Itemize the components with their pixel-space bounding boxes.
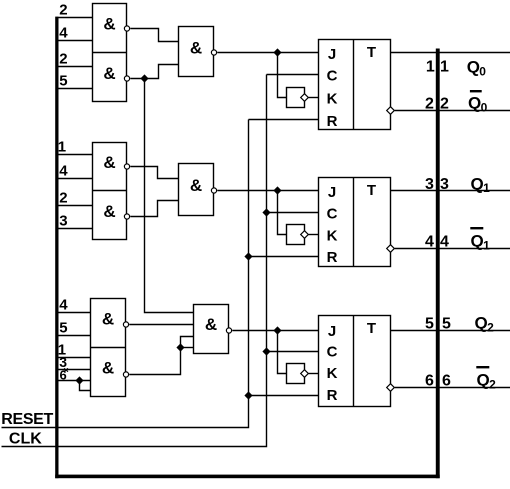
wire: node F branch to G6 lowest input	[80, 381, 91, 391]
svg-text:Q: Q	[467, 58, 480, 77]
svg-text:Q: Q	[468, 94, 481, 113]
net label Q0-bar	[468, 90, 488, 114]
AND gate G4 symbol &	[103, 202, 115, 221]
svg-text:0: 0	[479, 64, 486, 78]
wire: FF3 Q2-bar output	[395, 387, 510, 389]
pin number 4 left of bus	[425, 234, 434, 251]
svg-text:2: 2	[440, 96, 449, 113]
svg-text:&: &	[102, 359, 114, 378]
FF2 inverted output bubble	[387, 245, 395, 253]
junction node A (G2 output branch)	[140, 74, 148, 82]
svg-text:R: R	[327, 113, 338, 130]
net label Q1	[471, 174, 491, 195]
svg-text:Q: Q	[475, 314, 488, 333]
svg-text:K: K	[327, 228, 338, 245]
bus: bottom thick horizontal rail	[55, 475, 440, 479]
wire: FF1 Q0 output	[391, 52, 510, 54]
junction node D (CLK rail / FF2 C)	[262, 208, 270, 216]
JK flip-flop FF1	[319, 40, 391, 130]
svg-text:4: 4	[59, 163, 68, 180]
wire: G1 output to N1 upper input	[130, 29, 178, 42]
wire: N1 output to FF1 J input	[217, 52, 318, 54]
wire: CLK vertical rail	[2, 75, 267, 447]
junction node K (RESET rail / FF3 R)	[244, 391, 252, 399]
wire: G6 input taps from left bus	[59, 358, 91, 381]
svg-text:T: T	[367, 44, 376, 61]
svg-text:T: T	[367, 320, 376, 337]
N3 output inversion bubble	[226, 328, 231, 333]
pin label 1 (G6 input)	[58, 342, 66, 359]
wire: node B down to inverter V1 input	[278, 53, 287, 98]
G6 output inversion bubble	[123, 372, 128, 377]
svg-text:K: K	[327, 365, 338, 382]
inverter V3 (K input of FF3)	[287, 364, 309, 384]
svg-text:1: 1	[426, 59, 435, 76]
AND gate pair G3/G4 box (middle group)	[93, 143, 127, 240]
svg-text:2: 2	[425, 96, 434, 113]
svg-text:&: &	[103, 202, 115, 221]
wire: FF2 C input	[267, 212, 319, 214]
wire: FF2 R input	[249, 256, 319, 258]
AND gate G2 symbol &	[103, 64, 115, 83]
G4 output inversion bubble	[124, 214, 129, 219]
svg-text:2: 2	[59, 51, 67, 68]
wire: G2 output to N1 lower input	[130, 65, 178, 79]
svg-text:5: 5	[59, 320, 67, 337]
net label CLK	[9, 431, 42, 448]
svg-text:3: 3	[425, 176, 434, 193]
junction node B on FF1 J line	[273, 48, 281, 56]
pin number 5 left of bus	[425, 316, 434, 333]
pin number 3 right of bus	[440, 176, 449, 193]
G2 output inversion bubble	[124, 76, 129, 81]
AND gate pair G5/G6 box (bottom group)	[91, 299, 126, 397]
wire: node G to N3 fourth input	[181, 347, 194, 349]
wire: FF3 C input	[267, 351, 319, 353]
pin label 4 (G5 input)	[59, 297, 68, 314]
svg-text:4: 4	[59, 25, 68, 42]
wire: G4 output to N2 lower input	[130, 201, 178, 217]
svg-text:3: 3	[440, 176, 449, 193]
G3 output inversion bubble	[124, 164, 129, 169]
wire: RESET vertical rail	[2, 120, 249, 428]
svg-text:4: 4	[425, 234, 434, 251]
svg-text:6: 6	[442, 373, 451, 390]
wire: G1 input taps from left bus	[59, 18, 93, 41]
svg-text:2: 2	[59, 2, 67, 19]
wire: G5 input taps from left bus	[59, 313, 91, 336]
pin label 4 (G1 input)	[59, 25, 68, 42]
svg-text:RESET: RESET	[1, 411, 53, 428]
bus: left thick vertical rail	[55, 17, 58, 479]
AND gate G1 symbol &	[103, 14, 115, 33]
svg-text:4: 4	[440, 234, 449, 251]
pin label 6 (G6 input)	[60, 367, 67, 382]
svg-text:5: 5	[442, 316, 451, 333]
net label RESET	[1, 411, 53, 428]
JK flip-flop FF3	[319, 316, 391, 407]
wire: V1 output to FF1 K	[309, 97, 319, 99]
svg-text:3: 3	[59, 213, 67, 230]
svg-text:T: T	[367, 182, 376, 199]
svg-text:&: &	[190, 38, 202, 57]
svg-text:Q: Q	[471, 174, 484, 193]
svg-text:&: &	[190, 176, 202, 195]
AND gate pair G1/G2 box (top group)	[93, 4, 127, 102]
wire: FF3 Q2 output	[391, 330, 510, 332]
svg-text:R: R	[327, 249, 338, 266]
wire: FF2 Q1 output	[391, 190, 510, 192]
svg-text:C: C	[327, 206, 338, 223]
pin number 3 left of bus	[425, 176, 434, 193]
N1 output inversion bubble	[211, 50, 216, 55]
JK flip-flop FF2	[319, 178, 391, 267]
junction node G on G6 output riser	[176, 343, 184, 351]
svg-text:1: 1	[58, 139, 66, 156]
AND gate G3 symbol &	[103, 153, 115, 172]
svg-text:J: J	[328, 184, 336, 201]
inverter V2 (K input of FF2)	[287, 225, 309, 245]
pin number 2 right of bus	[440, 96, 449, 113]
pin number 4 right of bus	[440, 234, 449, 251]
svg-text:5: 5	[59, 73, 67, 90]
wire: G3 input taps from left bus	[59, 155, 93, 179]
wire: G4 input taps from left bus	[59, 206, 93, 229]
net label Q0	[467, 58, 487, 79]
net label Q1-bar	[470, 227, 490, 252]
FF3 inverted output bubble	[387, 384, 395, 392]
wire: G5 output to N3 second input	[129, 324, 193, 326]
svg-text:1: 1	[483, 238, 490, 252]
wire: FF2 Q1-bar output	[395, 248, 510, 250]
wire: FF3 R input	[249, 395, 319, 397]
wire: FF1 Q0-bar output	[395, 110, 510, 112]
svg-text:C: C	[327, 68, 338, 85]
pin label 4 (G3 input)	[59, 163, 68, 180]
wire: G2 input taps from left bus	[59, 67, 93, 89]
pin number 6 left of bus	[425, 373, 434, 390]
net label Q2-bar	[476, 366, 496, 391]
svg-text:&: &	[103, 64, 115, 83]
svg-text:6: 6	[425, 373, 434, 390]
pin label 2 (G2 input)	[59, 51, 67, 68]
svg-text:1: 1	[483, 181, 490, 195]
svg-text:2: 2	[489, 377, 496, 391]
svg-text:J: J	[328, 46, 336, 63]
pin label 3 (G6 input)	[59, 354, 67, 370]
pin number 6 right of bus	[442, 373, 451, 390]
svg-text:0: 0	[481, 100, 488, 114]
svg-text:5: 5	[425, 316, 434, 333]
AND gate G5 symbol &	[102, 310, 114, 329]
svg-text:2: 2	[59, 190, 67, 207]
svg-text:&: &	[102, 310, 114, 329]
wire: V2 output to FF2 K	[309, 234, 319, 236]
pin number 1 right of bus	[440, 59, 449, 76]
bus: right thick vertical rail	[436, 49, 440, 479]
svg-text:&: &	[103, 153, 115, 172]
junction node F on pin-6 tap	[75, 376, 83, 384]
svg-text:&: &	[103, 14, 115, 33]
wire: G6 output up to N3 third input	[129, 337, 193, 375]
pin label 1 (G3 input)	[58, 139, 66, 156]
G1 output inversion bubble	[124, 26, 129, 31]
wire: G3 output to N2 upper input	[130, 167, 178, 179]
wire: N3 output to FF3 J input	[232, 330, 318, 332]
pin number 2 left of bus	[425, 96, 434, 113]
pin label 5 (G2 input)	[59, 73, 67, 90]
mark x on G6 input line	[64, 368, 68, 371]
svg-text:Q: Q	[471, 232, 484, 251]
pin number 1 left of bus	[426, 59, 435, 76]
pin label 2 (G4 input)	[59, 190, 67, 207]
svg-text:4: 4	[59, 297, 68, 314]
pin number 5 right of bus	[442, 316, 451, 333]
FF1 inverted output bubble	[387, 107, 395, 115]
wire: FF1 C input to CLK rail	[267, 74, 319, 76]
svg-text:J: J	[328, 323, 336, 340]
wire: N2 output to FF2 J input	[217, 190, 318, 192]
svg-text:CLK: CLK	[9, 431, 42, 448]
pin label 3 (G4 input)	[59, 213, 67, 230]
N2 output inversion bubble	[211, 188, 216, 193]
inverter V1 (K input of FF1)	[287, 88, 309, 108]
NAND gate N2 (middle second stage)	[179, 164, 214, 216]
AND gate G6 symbol &	[102, 359, 114, 378]
svg-text:Q: Q	[477, 371, 490, 390]
NAND gate N3 (bottom second stage)	[194, 305, 229, 354]
net label Q2	[475, 314, 495, 335]
wire: node C down to inverter V2 input	[278, 191, 287, 235]
svg-text:C: C	[327, 344, 338, 361]
NAND gate N1 (top second stage)	[179, 27, 214, 77]
svg-text:1: 1	[440, 59, 449, 76]
wire: FF1 R input to RESET rail	[249, 119, 319, 121]
junction node I (CLK rail / FF3 C)	[262, 347, 270, 355]
wire: V3 output to FF3 K	[309, 373, 319, 375]
svg-text:2: 2	[487, 320, 494, 334]
svg-text:K: K	[327, 91, 338, 108]
pin label 2 (G1 input)	[59, 2, 67, 19]
svg-text:R: R	[327, 387, 338, 404]
pin label 5 (G5 input)	[59, 320, 67, 337]
svg-text:&: &	[205, 315, 217, 334]
wire: node A down to NAND N3 top input	[145, 79, 194, 313]
G5 output inversion bubble	[123, 322, 128, 327]
wire: node H down to inverter V3 input	[278, 331, 287, 374]
junction node E (RESET rail / FF2 R)	[244, 252, 252, 260]
junction node H on FF3 J line	[273, 326, 281, 334]
junction node C on FF2 J line	[273, 186, 281, 194]
